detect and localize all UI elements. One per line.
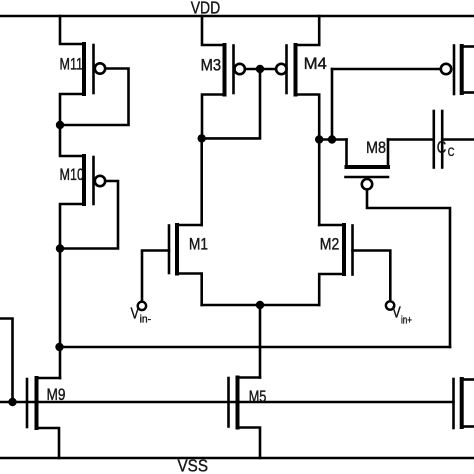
node: tail junction [256, 301, 264, 309]
transistor M9 (NMOS) [27, 378, 66, 458]
svg-text:V: V [392, 304, 401, 321]
transistor M7 (NMOS output, cut at right edge) [454, 379, 474, 428]
wire second stage gate riser [331, 69, 334, 140]
svg-text:M5: M5 [249, 387, 267, 406]
node: bias chain / M9 drain / M8 gate line [55, 343, 63, 351]
transistor M8 (PMOS, horizontal) [346, 138, 451, 347]
VDD rail [0, 15, 474, 18]
transistor M4 (PMOS mirror right) [260, 16, 327, 140]
svg-text:M2: M2 [320, 235, 340, 254]
node: M10 drain junction [56, 244, 64, 252]
wire output node horizontal to M8 [319, 138, 346, 141]
wire tail down to M5 [259, 305, 262, 378]
transistor M1 (NMOS diff pair left) [142, 225, 208, 305]
wire bias node down to M9 drain [59, 347, 62, 378]
svg-text:M1: M1 [189, 235, 208, 254]
bias input stub from left edge [0, 319, 13, 403]
wire output to M6 gate [332, 68, 441, 71]
wire gate bias line M9/M5/M7 [0, 401, 454, 404]
transistor M10 (diode-connected PMOS) [60, 125, 119, 249]
svg-text:in+: in+ [401, 315, 412, 327]
terminal Vin+ [386, 301, 412, 326]
svg-text:VSS: VSS [178, 456, 209, 474]
svg-text:M3: M3 [201, 56, 222, 75]
capacitor Cc [434, 111, 474, 168]
terminal Vin- [131, 302, 152, 326]
node: M3 drain / M1 drain [198, 134, 206, 142]
transistor M2 (NMOS diff pair right) [319, 225, 390, 305]
svg-text:C: C [437, 137, 447, 157]
svg-text:M4: M4 [304, 54, 327, 73]
svg-text:VDD: VDD [191, 0, 221, 18]
transistor M6 (PMOS output, cut at right edge) [441, 46, 474, 95]
node: output to second stage gate [328, 135, 336, 143]
svg-text:in-: in- [140, 313, 152, 325]
transistor M11 (diode-connected PMOS) [60, 16, 129, 125]
svg-text:M10: M10 [60, 165, 85, 184]
transistor M5 (NMOS tail source) [229, 378, 267, 459]
wire M4 drain node down to M2 drain [318, 140, 321, 226]
wire M8 to Cc [388, 138, 434, 141]
wire M3 drain node down to M1 drain [200, 138, 203, 225]
node: M3/M4 gate tie [256, 65, 264, 73]
svg-text:V: V [131, 306, 140, 323]
svg-text:M8: M8 [366, 138, 386, 157]
wire M10 drain down to M9 drain node [59, 249, 62, 348]
node: M11 drain / M10 source junction [56, 121, 64, 129]
wire mirror gate tie down to M3 drain [202, 69, 260, 138]
node: bias input to gate line [8, 398, 16, 406]
svg-text:M11: M11 [60, 54, 84, 73]
wire diff pair tail [202, 304, 320, 307]
svg-text:C: C [448, 147, 455, 159]
wire bias node to M8 gate (horizontal run) [60, 346, 451, 349]
node: M4 drain / M2 drain / output [315, 135, 323, 143]
transistor M3 (PMOS mirror left) [201, 16, 260, 138]
VSS rail [0, 457, 474, 460]
